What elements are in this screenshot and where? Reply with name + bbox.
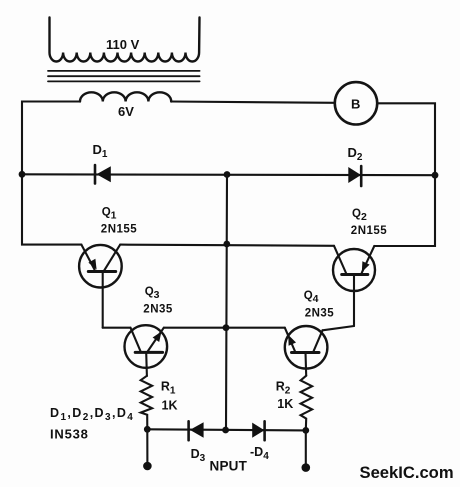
svg-text:-D4: -D4 (250, 445, 269, 462)
svg-text:D2: D2 (348, 145, 363, 163)
svg-text:1K: 1K (277, 397, 293, 411)
node junction dot center / collector row (223, 241, 230, 248)
node junction dot R2 bottom (302, 427, 309, 434)
svg-text:6V: 6V (118, 104, 134, 119)
wire diode row D1 D2 (22, 173, 435, 176)
svg-text:1K: 1K (162, 399, 178, 413)
node junction dot center / Q3-Q4 emitter row (223, 324, 230, 331)
wire Q3 emitter row to center (164, 327, 226, 329)
svg-text:2N155: 2N155 (351, 225, 387, 237)
transistor Q4 (NPN 2N35) (285, 326, 328, 376)
svg-text:Q2: Q2 (352, 208, 367, 223)
transistor Q2 (PNP 2N155) (333, 246, 375, 326)
wire collector row Q1-Q2 (120, 245, 334, 246)
wire center vertical line (226, 175, 227, 431)
meter B circle (335, 82, 377, 124)
svg-text:B: B (351, 97, 360, 112)
transistor Q3 (NPN 2N35) (125, 325, 168, 376)
wire meter B to right corner (374, 103, 435, 246)
svg-text:Q1: Q1 (102, 207, 117, 222)
svg-text:2N35: 2N35 (305, 308, 335, 320)
wire input terminal right (305, 430, 307, 467)
transformer T1 secondary winding 6V (80, 92, 171, 101)
input terminal dot left (143, 462, 152, 471)
svg-text:R2: R2 (276, 380, 291, 397)
svg-text:2N35: 2N35 (143, 304, 173, 316)
svg-text:IN538: IN538 (50, 427, 89, 442)
wire center to Q4 emitter (226, 327, 285, 329)
svg-text:SeekIC.com: SeekIC.com (360, 463, 454, 482)
svg-text:R1: R1 (161, 380, 176, 397)
wire top rail right: secondary to meter B (171, 102, 335, 103)
transformer core lines (48, 71, 200, 82)
wire input terminal left (146, 429, 148, 466)
wire bottom diode row (147, 429, 305, 430)
diode D4 (triangle pointing right, cathode bar right) (252, 421, 264, 440)
node junction dot right rail / diode row (432, 172, 439, 179)
diode D2 (triangle pointing right, cathode bar right) (348, 166, 361, 186)
input terminal dot right (302, 463, 311, 472)
node junction dot center bottom (222, 427, 229, 434)
transformer T1 primary winding (50, 18, 200, 62)
svg-text:D1: D1 (93, 142, 108, 160)
node junction dot R1 bottom (144, 426, 151, 433)
transistor Q1 (PNP 2N155) (79, 245, 122, 328)
wire top rail left: secondary to left corner (22, 102, 81, 245)
node junction dot left rail / diode row (19, 171, 26, 178)
node junction dot center / diode row (224, 171, 231, 178)
svg-text:D1,D2,D3,D4: D1,D2,D3,D4 (50, 406, 134, 423)
resistor R1 1K zigzag (141, 376, 152, 430)
svg-text:110 V: 110 V (106, 37, 140, 52)
diode D3 (cathode bar left, triangle pointing left) (189, 421, 204, 440)
resistor R2 1K zigzag (301, 376, 313, 431)
wire Q1 base to Q3 collector (103, 327, 131, 329)
svg-text:D3: D3 (191, 447, 206, 464)
svg-text:Q4: Q4 (304, 290, 319, 305)
diode D1 (cathode bar left, triangle pointing left) (95, 165, 111, 184)
wire Q2 base to Q4 collector (323, 326, 355, 330)
svg-text:2N155: 2N155 (101, 224, 137, 236)
svg-text:Q3: Q3 (145, 286, 160, 301)
svg-text:NPUT: NPUT (210, 459, 248, 474)
